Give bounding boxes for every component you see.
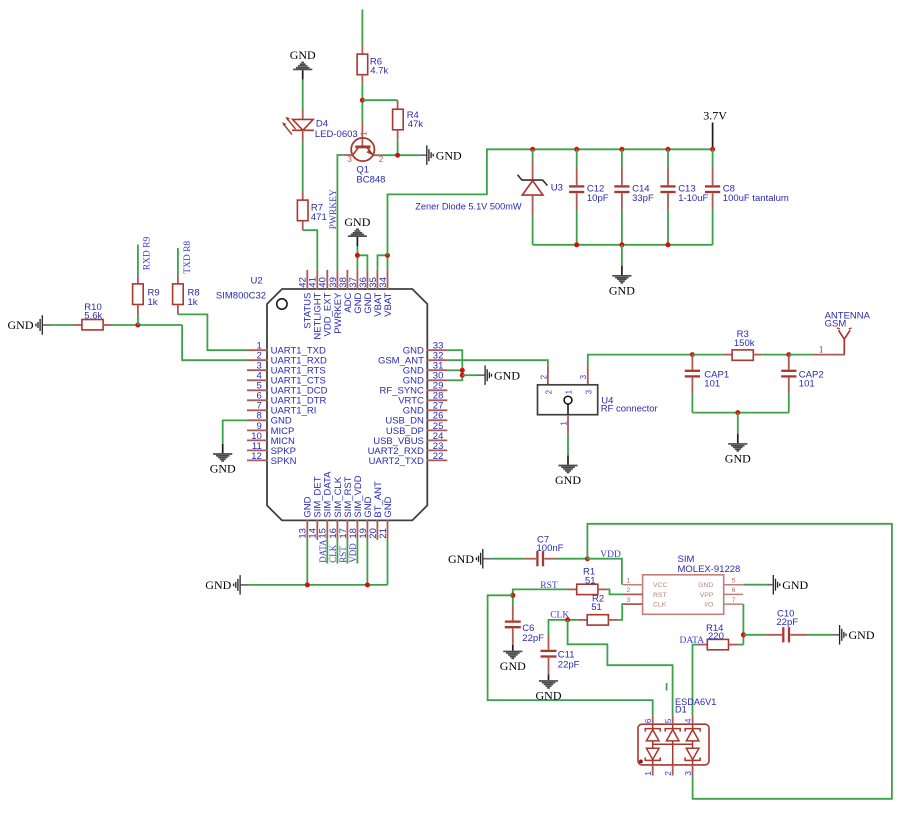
svg-text:3.7V: 3.7V — [703, 108, 727, 122]
U2 pin 7 UART1_RI — [247, 401, 316, 417]
capacitor C13 1-10uF — [660, 149, 708, 245]
wire PWRKEY Q1 to U2 pin 39 — [329, 155, 344, 270]
wire pin33/31/30 GND tie — [447, 350, 462, 380]
capacitor CAP1 101 — [685, 355, 729, 413]
svg-text:2: 2 — [539, 374, 548, 379]
junction R9/R10 — [135, 323, 140, 328]
ground GND (U4 pin 1) — [555, 455, 581, 487]
svg-text:RST: RST — [338, 546, 348, 563]
resistor R1 51 — [567, 567, 643, 595]
wire RST net — [513, 589, 567, 605]
svg-text:2: 2 — [663, 771, 673, 776]
wire SIM pin7 to junction — [742, 604, 744, 645]
svg-text:5: 5 — [732, 578, 736, 585]
junction rail C13 — [666, 147, 671, 152]
svg-text:U3: U3 — [551, 183, 563, 194]
svg-text:VBAT: VBAT — [383, 292, 394, 316]
svg-text:RF connector: RF connector — [601, 404, 658, 415]
svg-text:47k: 47k — [408, 119, 424, 130]
zener diode U3 — [518, 149, 563, 245]
svg-text:DATA: DATA — [318, 539, 328, 563]
capacitor C7 100nF — [524, 535, 587, 567]
resistor R3 150k — [692, 329, 788, 360]
U2 pin 8 GND — [247, 411, 292, 427]
svg-text:D1: D1 — [675, 704, 687, 714]
wire net stub RST (U2) — [338, 540, 348, 564]
resistor R9 1k — [133, 245, 160, 326]
svg-text:1: 1 — [559, 421, 568, 426]
svg-text:100uF tantalum: 100uF tantalum — [723, 193, 789, 204]
U2 pin 28 VRTC — [398, 391, 447, 407]
U2 pin 33 GND — [403, 341, 448, 357]
wire antenna feed — [789, 354, 814, 356]
junction GND stub — [460, 373, 465, 378]
ground GND (C11) — [536, 675, 562, 703]
svg-text:3: 3 — [627, 597, 631, 604]
resistor R6 4.7k — [357, 45, 388, 83]
U2 pin 18 SIM_VDD — [348, 475, 364, 540]
wire net stub VDD (U2) — [348, 540, 358, 564]
U2 pin 2 UART1_RXD — [247, 351, 327, 367]
junction rail C14 — [619, 147, 624, 152]
svg-text:22: 22 — [433, 451, 444, 462]
ground GND (inverted, above D4) — [290, 48, 316, 80]
svg-text:1: 1 — [819, 346, 824, 356]
svg-text:1: 1 — [564, 389, 573, 394]
svg-text:101: 101 — [704, 378, 720, 389]
resistor R2 51 — [578, 593, 643, 625]
ground GND (cap bank) — [609, 266, 635, 298]
wire rail to GND — [621, 245, 623, 266]
U2 pin 32 GSM_ANT — [378, 351, 447, 367]
svg-text:12: 12 — [251, 451, 262, 462]
wire GND to D4 — [302, 80, 304, 109]
wire junction to R4 — [362, 99, 397, 101]
capacitor C11 22pF — [541, 635, 580, 675]
U2 pin 29 RF_SYNC — [380, 381, 448, 397]
svg-text:101: 101 — [799, 378, 815, 389]
svg-text:3: 3 — [584, 389, 593, 394]
wire R8 to U2 pin 1 — [178, 314, 248, 350]
supply 3.7V — [703, 108, 727, 149]
wire net stub CLK (U2) — [328, 540, 338, 564]
resistor R4 47k — [393, 100, 424, 139]
U2 pin 26 USB_DN — [385, 411, 447, 427]
junction CAP1/R3 — [690, 352, 695, 357]
ground GND (U2 pins 30/31) — [478, 365, 521, 385]
svg-text:22pF: 22pF — [776, 617, 798, 628]
junction bottom C14 — [619, 242, 624, 247]
wire D4 to R7 — [302, 142, 304, 192]
svg-text:5: 5 — [663, 718, 673, 723]
svg-text:1: 1 — [359, 131, 369, 136]
U2 pin 34 VBAT — [378, 270, 394, 317]
diode D4 LED-0603 — [282, 109, 358, 142]
resistor R7 471 — [297, 191, 326, 230]
svg-text:100nF: 100nF — [537, 543, 564, 554]
svg-text:220: 220 — [708, 631, 724, 642]
U2 pin 23 UART2_RXD — [368, 441, 448, 457]
U2 pin 19 GND — [358, 496, 374, 540]
wire GND to C7 — [492, 558, 524, 560]
svg-text:GND: GND — [383, 496, 394, 517]
wire DATA to D1 pin4 — [693, 645, 698, 716]
antenna ANTENNA GSM — [813, 310, 870, 355]
wire R7 to U2 pin 41 NETLIGHT — [303, 230, 318, 270]
wire pin21 to rail — [387, 540, 389, 585]
U2 pin 3 UART1_RTS — [247, 361, 326, 377]
svg-text:RXD R9: RXD R9 — [143, 237, 153, 271]
svg-text:34: 34 — [378, 277, 389, 288]
svg-text:GND: GND — [609, 283, 635, 297]
U2 pin 24 USB_VBUS — [373, 431, 447, 447]
U2 pin 35 VBAT — [368, 270, 384, 317]
svg-text:BC848: BC848 — [356, 174, 385, 185]
U2 pin 11 SPKP — [247, 441, 296, 457]
wire D1 pin3 lead — [692, 765, 694, 776]
svg-text:LED-0603: LED-0603 — [315, 129, 358, 140]
U2 pin 41 NETLIGHT — [308, 270, 324, 340]
svg-text:22pF: 22pF — [522, 633, 544, 644]
U2 pin 10 MICN — [247, 431, 295, 447]
wire U4 pin3 to antenna net — [588, 355, 693, 366]
connector U4 RF connector — [538, 365, 658, 434]
junction CAP2/antenna — [786, 352, 791, 357]
svg-text:33pF: 33pF — [632, 193, 654, 204]
svg-text:2: 2 — [544, 389, 553, 394]
svg-text:GND: GND — [555, 473, 581, 487]
wire bottom GND rail — [250, 584, 388, 586]
U2 pin 17 SIM_RST — [338, 476, 354, 540]
svg-text:CLK: CLK — [653, 602, 667, 609]
wire stub I — [666, 683, 668, 691]
U2 pin 12 SPKN — [247, 451, 297, 467]
IC U2 SIM800C32 body — [216, 276, 427, 521]
junction bottom C13 — [666, 242, 671, 247]
U2 pin 13 GND — [298, 496, 314, 540]
U2 pin 25 USB_DP — [386, 421, 447, 437]
svg-text:GND: GND — [782, 578, 808, 592]
wire SIM pin5 to GND — [743, 584, 766, 586]
ground GND (C6) — [500, 645, 526, 673]
U2 pin 27 GND — [403, 401, 448, 417]
svg-text:VPP: VPP — [700, 592, 714, 599]
U2 pin 30 GND — [403, 371, 448, 387]
svg-text:GND: GND — [536, 688, 562, 702]
junction rail pin19 — [365, 582, 370, 587]
U2 pin 21 GND — [378, 496, 394, 540]
wire CLK net — [549, 620, 578, 635]
U2 pin 9 MICP — [247, 421, 294, 437]
junction VBAT pin34 — [385, 253, 390, 258]
U2 pin 5 UART1_DCD — [247, 381, 328, 397]
wire GSM_ANT to U4 pin2 — [447, 360, 548, 365]
U2 pin 4 UART1_CTS — [247, 371, 326, 387]
ground GND (SIM pin 5) — [766, 575, 809, 595]
U2 pin 1 UART1_TXD — [247, 341, 326, 357]
ground GND (U2 pin 8) — [210, 444, 236, 476]
wire GND to R10 — [52, 324, 73, 326]
U2 pin 37 GND — [348, 270, 364, 314]
capacitor C8 100uF tantalum — [705, 149, 789, 245]
junction pin31 — [460, 368, 465, 373]
svg-text:1k: 1k — [188, 297, 198, 308]
U2 pin 14 SIM_DET — [308, 476, 324, 540]
svg-text:1k: 1k — [148, 297, 158, 308]
U2 pin 39 PWRKEY — [328, 270, 344, 334]
junction R6/R4 — [360, 98, 365, 103]
wire net stub DATA (U2) — [318, 539, 328, 563]
svg-text:RST: RST — [653, 592, 667, 599]
junction rail U3 — [530, 147, 535, 152]
svg-text:6: 6 — [643, 718, 653, 723]
svg-text:22pF: 22pF — [558, 659, 580, 670]
junction bottom C12 — [574, 242, 579, 247]
junction RST/C6 — [510, 593, 515, 598]
svg-text:1: 1 — [627, 578, 631, 585]
svg-text:GND: GND — [344, 215, 370, 229]
diode array D1 ESDA6V1 — [638, 697, 716, 776]
U2 pin 31 GND — [403, 361, 448, 377]
U2 pin 6 UART1_DTR — [247, 391, 327, 407]
ground GND (left of bottom rail) — [205, 575, 249, 595]
ground GND (left of R10) — [8, 315, 52, 335]
wire pin13 to rail — [306, 540, 308, 585]
resistor R14 220 — [698, 623, 744, 650]
wire CLK to D1 pin5 — [568, 620, 673, 715]
wire GND stub — [462, 374, 477, 376]
wire pin19 to rail — [366, 540, 368, 585]
svg-text:51: 51 — [585, 576, 596, 587]
wire junction to U2 pin 2 — [182, 325, 248, 360]
wire U4 pin1 to GND — [567, 434, 569, 456]
wire pin31 stub — [447, 369, 462, 371]
junction VDD/C7 — [585, 556, 590, 561]
svg-text:CLK: CLK — [328, 544, 338, 563]
junction rail C12 — [574, 147, 579, 152]
U2 pin 40 VDD_EXT — [318, 270, 334, 337]
capacitor C10 22pF — [765, 609, 832, 643]
wire VBAT to cap rail — [388, 149, 713, 255]
svg-text:150k: 150k — [734, 338, 755, 349]
svg-text:VDD: VDD — [348, 543, 358, 563]
wire caps rail to GND — [737, 413, 739, 434]
capacitor C14 33pF — [614, 149, 654, 245]
svg-text:21: 21 — [378, 528, 389, 539]
capacitor CAP2 101 — [781, 355, 823, 413]
junction R4/Q1/GND — [395, 153, 400, 158]
ground GND (CAP1/CAP2) — [725, 434, 751, 466]
svg-text:Zener Diode 5.1V 500mW: Zener Diode 5.1V 500mW — [415, 201, 522, 211]
svg-text:1-10uF: 1-10uF — [678, 193, 708, 204]
wire U2 pin 8 to GND — [223, 420, 248, 444]
wire GND to pins 37/36 — [356, 246, 358, 270]
ground GND (left of C7) — [448, 549, 492, 569]
svg-text:5.6k: 5.6k — [84, 310, 102, 321]
U2 pin 20 BT_ANT — [368, 481, 384, 540]
svg-text:GND: GND — [448, 552, 474, 566]
ground GND (right of Q1) — [419, 145, 462, 165]
svg-text:7: 7 — [732, 597, 736, 604]
wire cap bank bottom rail — [533, 244, 713, 246]
svg-text:GND: GND — [290, 48, 316, 62]
svg-text:GND: GND — [500, 659, 526, 673]
svg-text:GND: GND — [205, 578, 231, 592]
capacitor C12 10pF — [569, 149, 609, 245]
junction rail C8 — [710, 147, 715, 152]
ground GND (inverted, above U2 pin 37) — [344, 215, 370, 247]
svg-text:2: 2 — [627, 587, 631, 594]
wire Q1 emitter to GND — [380, 154, 419, 156]
resistor R10 5.6k — [73, 302, 112, 330]
svg-text:3: 3 — [683, 771, 693, 776]
svg-text:PWRKEY: PWRKEY — [329, 189, 339, 229]
svg-text:VCC: VCC — [653, 582, 667, 589]
wire pin36 jog — [357, 255, 367, 270]
svg-text:4.7k: 4.7k — [370, 65, 388, 76]
svg-text:GND: GND — [210, 462, 236, 476]
svg-text:GND: GND — [698, 582, 713, 589]
wire R6 to Q1 base — [361, 83, 363, 121]
wire CAP1/CAP2 bottom rail — [692, 412, 788, 414]
transistor Q1 BC848 — [344, 121, 386, 185]
svg-text:51: 51 — [591, 602, 602, 613]
svg-text:GND: GND — [725, 452, 751, 466]
junction rail pin13 — [305, 582, 310, 587]
svg-text:SPKN: SPKN — [271, 456, 297, 467]
svg-text:SIM800C32: SIM800C32 — [216, 291, 266, 302]
svg-text:GND: GND — [849, 628, 875, 642]
svg-text:GSM: GSM — [825, 319, 847, 330]
junction pin37 GND — [355, 253, 360, 258]
svg-text:1: 1 — [643, 771, 653, 776]
capacitor C6 22pF — [505, 605, 544, 645]
svg-text:GND: GND — [494, 368, 520, 382]
wire VBAT to R6 — [361, 10, 363, 46]
svg-text:3: 3 — [579, 374, 588, 379]
svg-text:3: 3 — [347, 154, 352, 164]
svg-text:471: 471 — [311, 212, 327, 223]
svg-text:GND: GND — [436, 148, 462, 162]
wire VDD to SIM pin1 — [587, 559, 622, 585]
svg-text:4: 4 — [683, 718, 693, 723]
U2 pin 36 GND — [358, 270, 374, 314]
junction CLK/C11 — [565, 617, 570, 622]
wire RST to D1 pin6 — [488, 595, 653, 715]
svg-text:U2: U2 — [251, 276, 263, 287]
resistor R8 1k — [173, 248, 200, 314]
junction caps GND — [735, 410, 740, 415]
svg-text:GND: GND — [8, 318, 34, 332]
wire VDD loop (top/right/bottom) — [587, 524, 892, 799]
svg-text:I/O: I/O — [704, 602, 713, 609]
svg-text:TXD R8: TXD R8 — [183, 241, 193, 274]
svg-text:UART2_TXD: UART2_TXD — [369, 456, 424, 467]
U2 pin 22 UART2_TXD — [369, 451, 448, 467]
svg-text:MOLEX-91228: MOLEX-91228 — [678, 564, 741, 575]
ground GND (C10) — [832, 625, 875, 645]
connector SIM MOLEX-91228 — [623, 554, 743, 614]
U2 pin 42 STATUS — [298, 270, 314, 329]
U2 pin 16 SIM_CLK — [328, 476, 344, 540]
wire R4 to GND/Q1 emitter — [397, 139, 399, 155]
svg-text:10pF: 10pF — [587, 193, 609, 204]
wire VBAT pins 34/35 — [378, 255, 388, 270]
wire junction to C10 — [743, 634, 765, 636]
junction I/O-R14-C10 — [741, 632, 746, 637]
wire R10 to pin2 net — [112, 324, 182, 326]
U2 pin 38 ADC — [338, 270, 354, 313]
U2 pin 15 SIM_DATA — [318, 471, 334, 540]
svg-text:6: 6 — [732, 587, 736, 594]
